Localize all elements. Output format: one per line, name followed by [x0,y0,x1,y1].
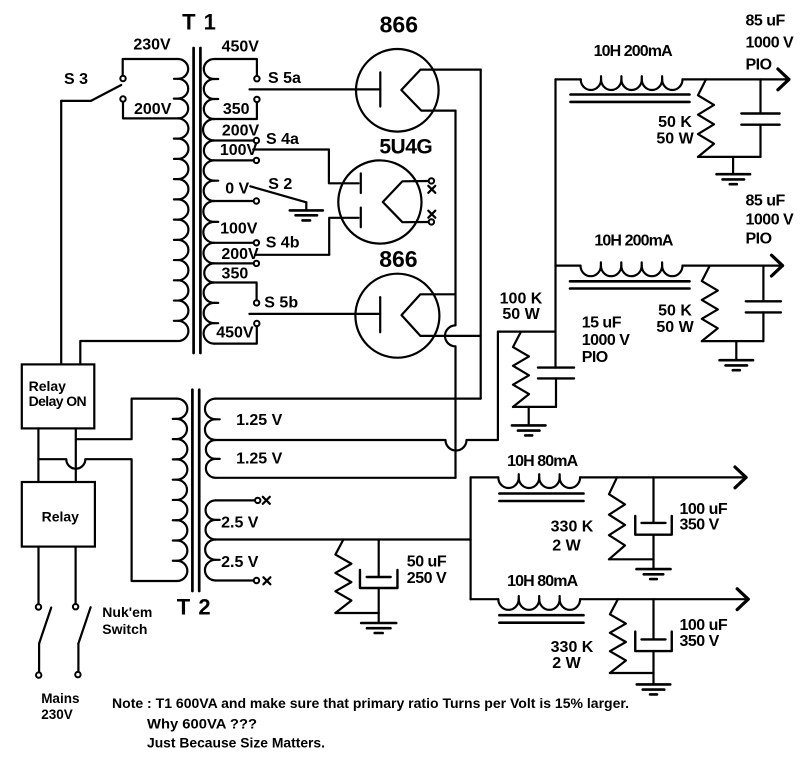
svg-text:200V: 200V [222,122,260,139]
svg-text:S 5a: S 5a [268,70,301,87]
svg-text:100V: 100V [220,221,258,238]
svg-text:350: 350 [222,266,249,283]
svg-text:10H 80mA: 10H 80mA [507,453,579,470]
svg-text:50 K: 50 K [658,302,692,319]
svg-text:1.25 V: 1.25 V [236,451,283,468]
svg-text:S 2: S 2 [268,176,292,193]
svg-text:10H 200mA: 10H 200mA [594,43,674,60]
svg-text:200V: 200V [134,101,172,118]
svg-text:100 uF: 100 uF [680,617,728,634]
svg-text:350 V: 350 V [680,517,720,534]
svg-text:1000 V: 1000 V [746,212,795,229]
svg-text:Relay: Relay [42,509,80,525]
svg-text:2.5 V: 2.5 V [221,554,259,571]
svg-text:S 3: S 3 [64,71,88,88]
svg-text:Relay: Relay [29,378,67,394]
svg-text:15 uF: 15 uF [582,315,622,332]
svg-text:250 V: 250 V [407,570,447,587]
svg-text:2 W: 2 W [552,655,581,672]
svg-text:S 4b: S 4b [266,235,300,252]
svg-text:100V: 100V [220,142,258,159]
svg-text:Switch: Switch [102,621,147,637]
svg-text:100 uF: 100 uF [680,501,728,518]
svg-text:Mains: Mains [41,691,79,706]
svg-text:230V: 230V [133,37,171,54]
svg-text:5U4G: 5U4G [379,136,432,159]
svg-text:Just Because Size Matters.: Just Because Size Matters. [147,736,325,751]
svg-text:Delay ON: Delay ON [29,393,87,409]
svg-text:50 W: 50 W [502,306,540,323]
svg-text:230V: 230V [41,707,73,722]
svg-text:Note : T1 600VA and make sure: Note : T1 600VA and make sure that prima… [112,696,629,711]
svg-text:50 W: 50 W [656,319,694,336]
svg-text:0 V: 0 V [225,181,249,198]
svg-text:T 2: T 2 [177,595,212,620]
svg-text:1000 V: 1000 V [582,332,631,349]
svg-text:PIO: PIO [746,231,772,248]
svg-text:Nuk'em: Nuk'em [102,604,152,620]
svg-text:50 K: 50 K [658,114,692,131]
svg-text:10H 80mA: 10H 80mA [507,573,579,590]
svg-text:866: 866 [380,12,418,38]
svg-text:PIO: PIO [746,57,772,74]
svg-text:330 K: 330 K [551,639,594,656]
svg-text:1.25 V: 1.25 V [236,412,283,429]
svg-text:85 uF: 85 uF [746,193,786,210]
svg-text:85 uF: 85 uF [746,13,786,30]
svg-text:450V: 450V [216,325,254,342]
svg-text:200V: 200V [221,246,259,263]
svg-text:350: 350 [223,101,250,118]
svg-text:PIO: PIO [582,349,608,366]
svg-text:2 W: 2 W [552,537,581,554]
svg-text:Why 600VA ???: Why 600VA ??? [147,717,257,732]
svg-text:450V: 450V [222,39,260,56]
svg-text:1000 V: 1000 V [746,35,795,52]
svg-text:50 W: 50 W [656,131,694,148]
svg-text:100 K: 100 K [500,291,543,308]
svg-text:T 1: T 1 [182,10,217,35]
svg-text:330 K: 330 K [551,519,594,536]
svg-text:350 V: 350 V [680,633,720,650]
svg-text:S 4a: S 4a [266,131,299,148]
svg-text:50 uF: 50 uF [407,554,447,571]
svg-text:10H 200mA: 10H 200mA [594,232,674,249]
svg-text:2.5 V: 2.5 V [221,514,259,531]
svg-text:866: 866 [379,246,417,272]
svg-text:S 5b: S 5b [264,295,298,312]
